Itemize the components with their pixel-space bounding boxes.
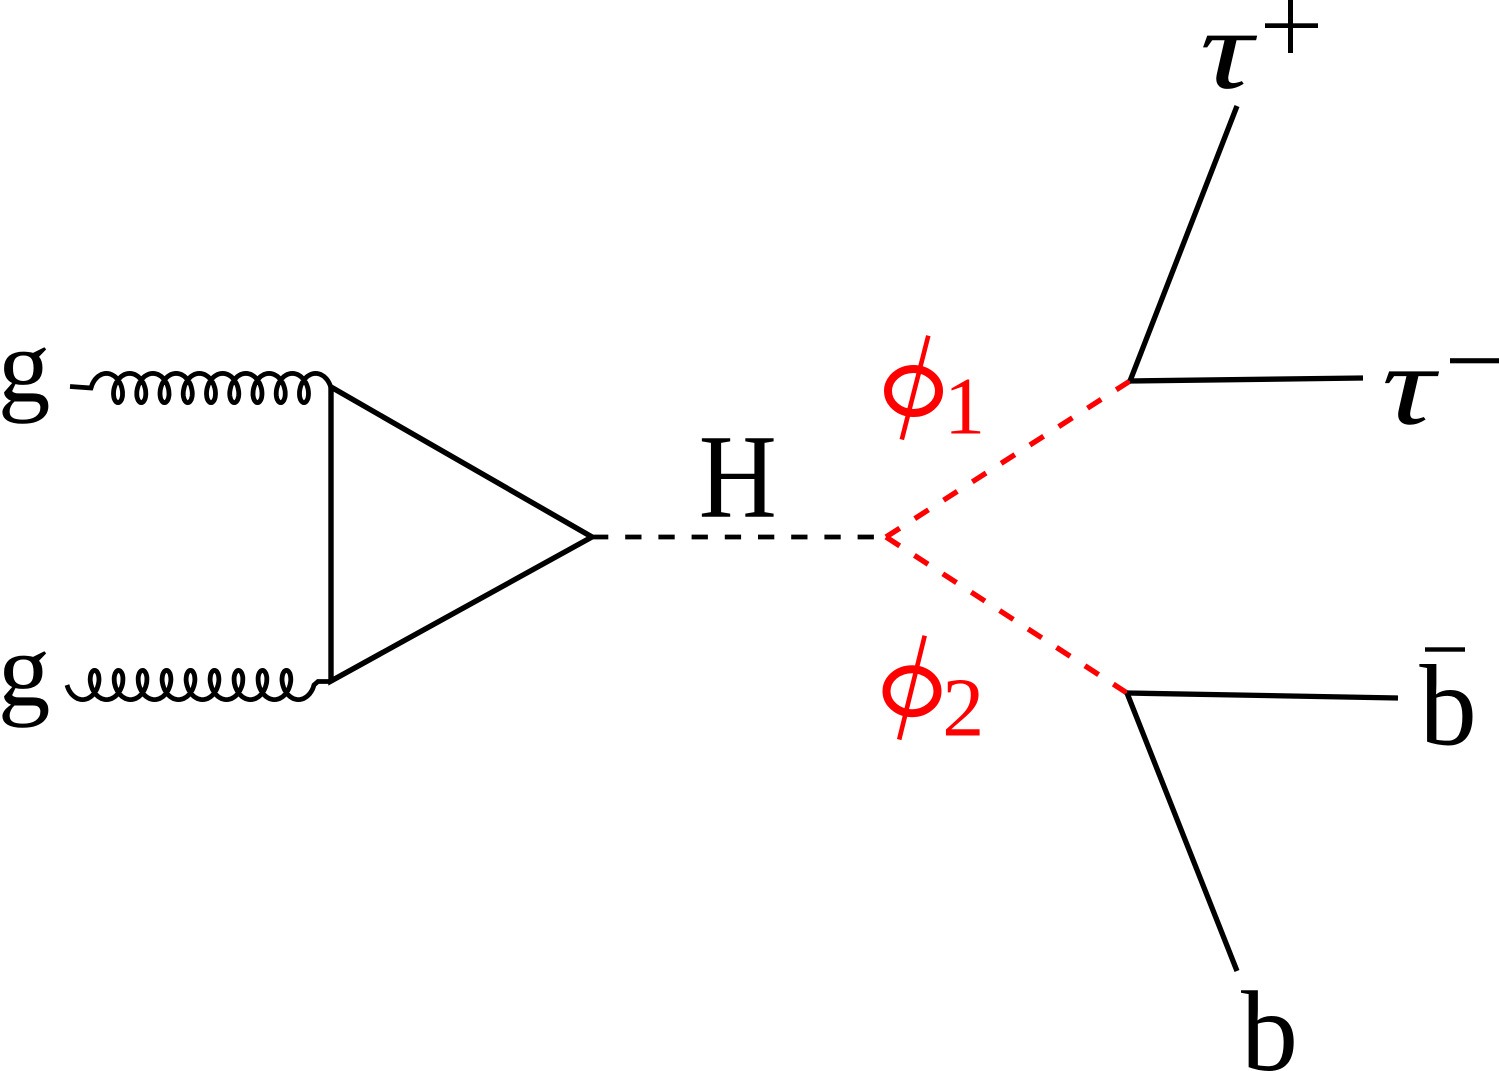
label phi2 (slash) — [899, 636, 925, 740]
minus sign of tau- — [1450, 358, 1499, 363]
bbar line — [1127, 693, 1398, 698]
plus sign of tau+ — [1265, 23, 1318, 28]
label phi1 (bowl) — [888, 369, 939, 413]
tau+ line — [1130, 106, 1237, 381]
label phi1 (slash) — [902, 336, 929, 440]
svg-text:1: 1 — [944, 361, 985, 452]
gluon line g1 (top, curly) — [70, 373, 331, 402]
svg-text:τ: τ — [1382, 322, 1440, 449]
label phi2 (bowl) — [887, 669, 938, 713]
svg-text:g: g — [0, 307, 50, 424]
svg-text:τ: τ — [1200, 0, 1258, 113]
bar of bbar — [1425, 647, 1465, 651]
svg-text:g: g — [0, 611, 50, 728]
svg-text:b: b — [1241, 968, 1298, 1071]
svg-text:H: H — [699, 410, 777, 543]
scalar phi1 propagator (red dashed) — [886, 381, 1130, 537]
gluon line g2 (bottom, curly) — [67, 670, 331, 699]
b line — [1127, 693, 1237, 971]
svg-text:b: b — [1419, 643, 1477, 770]
quark triangle loop — [331, 387, 592, 681]
svg-text:2: 2 — [942, 662, 984, 755]
higgs propagator H (dashed) — [592, 535, 886, 540]
scalar phi2 propagator (red dashed) — [886, 537, 1127, 693]
tau- line — [1130, 378, 1363, 381]
